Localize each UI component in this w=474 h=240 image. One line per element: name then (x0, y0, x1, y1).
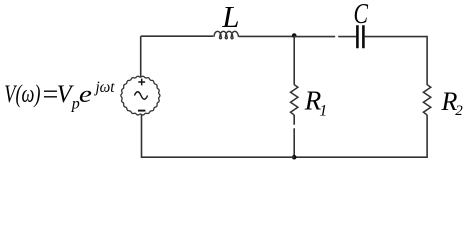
svg-text:C: C (354, 0, 369, 30)
svg-text:jωt: jωt (94, 79, 116, 96)
wire node A down to R1 (293, 36, 295, 85)
wire node A to capacitor (294, 36, 356, 38)
source sine symbol (134, 92, 147, 100)
source minus sign (138, 110, 145, 112)
capacitor C plates (357, 25, 363, 48)
wire source top lead (140, 36, 142, 76)
resistor R2 zigzag (423, 85, 430, 115)
source plus sign (138, 79, 145, 86)
resistor R1 zigzag (291, 85, 298, 115)
svg-text:1: 1 (319, 103, 327, 120)
voltage source V circle (121, 76, 160, 115)
wire inductor to node A (239, 35, 294, 37)
svg-text:V(ω): V(ω) (4, 81, 40, 108)
wire R1 to bottom node (293, 115, 295, 157)
inductor L (214, 31, 238, 38)
wire bottom (node to source bottom) (141, 115, 294, 157)
svg-text:2: 2 (455, 103, 463, 119)
bottom node junction dot (292, 155, 297, 160)
node A junction dot (top) (292, 33, 297, 38)
svg-text:e: e (79, 82, 92, 108)
wire capacitor to top-right corner (365, 36, 427, 85)
svg-text:L: L (221, 0, 239, 34)
wire R2 to bottom-right corner (294, 115, 428, 157)
wire top-left horizontal (source top to inductor) (141, 35, 214, 37)
